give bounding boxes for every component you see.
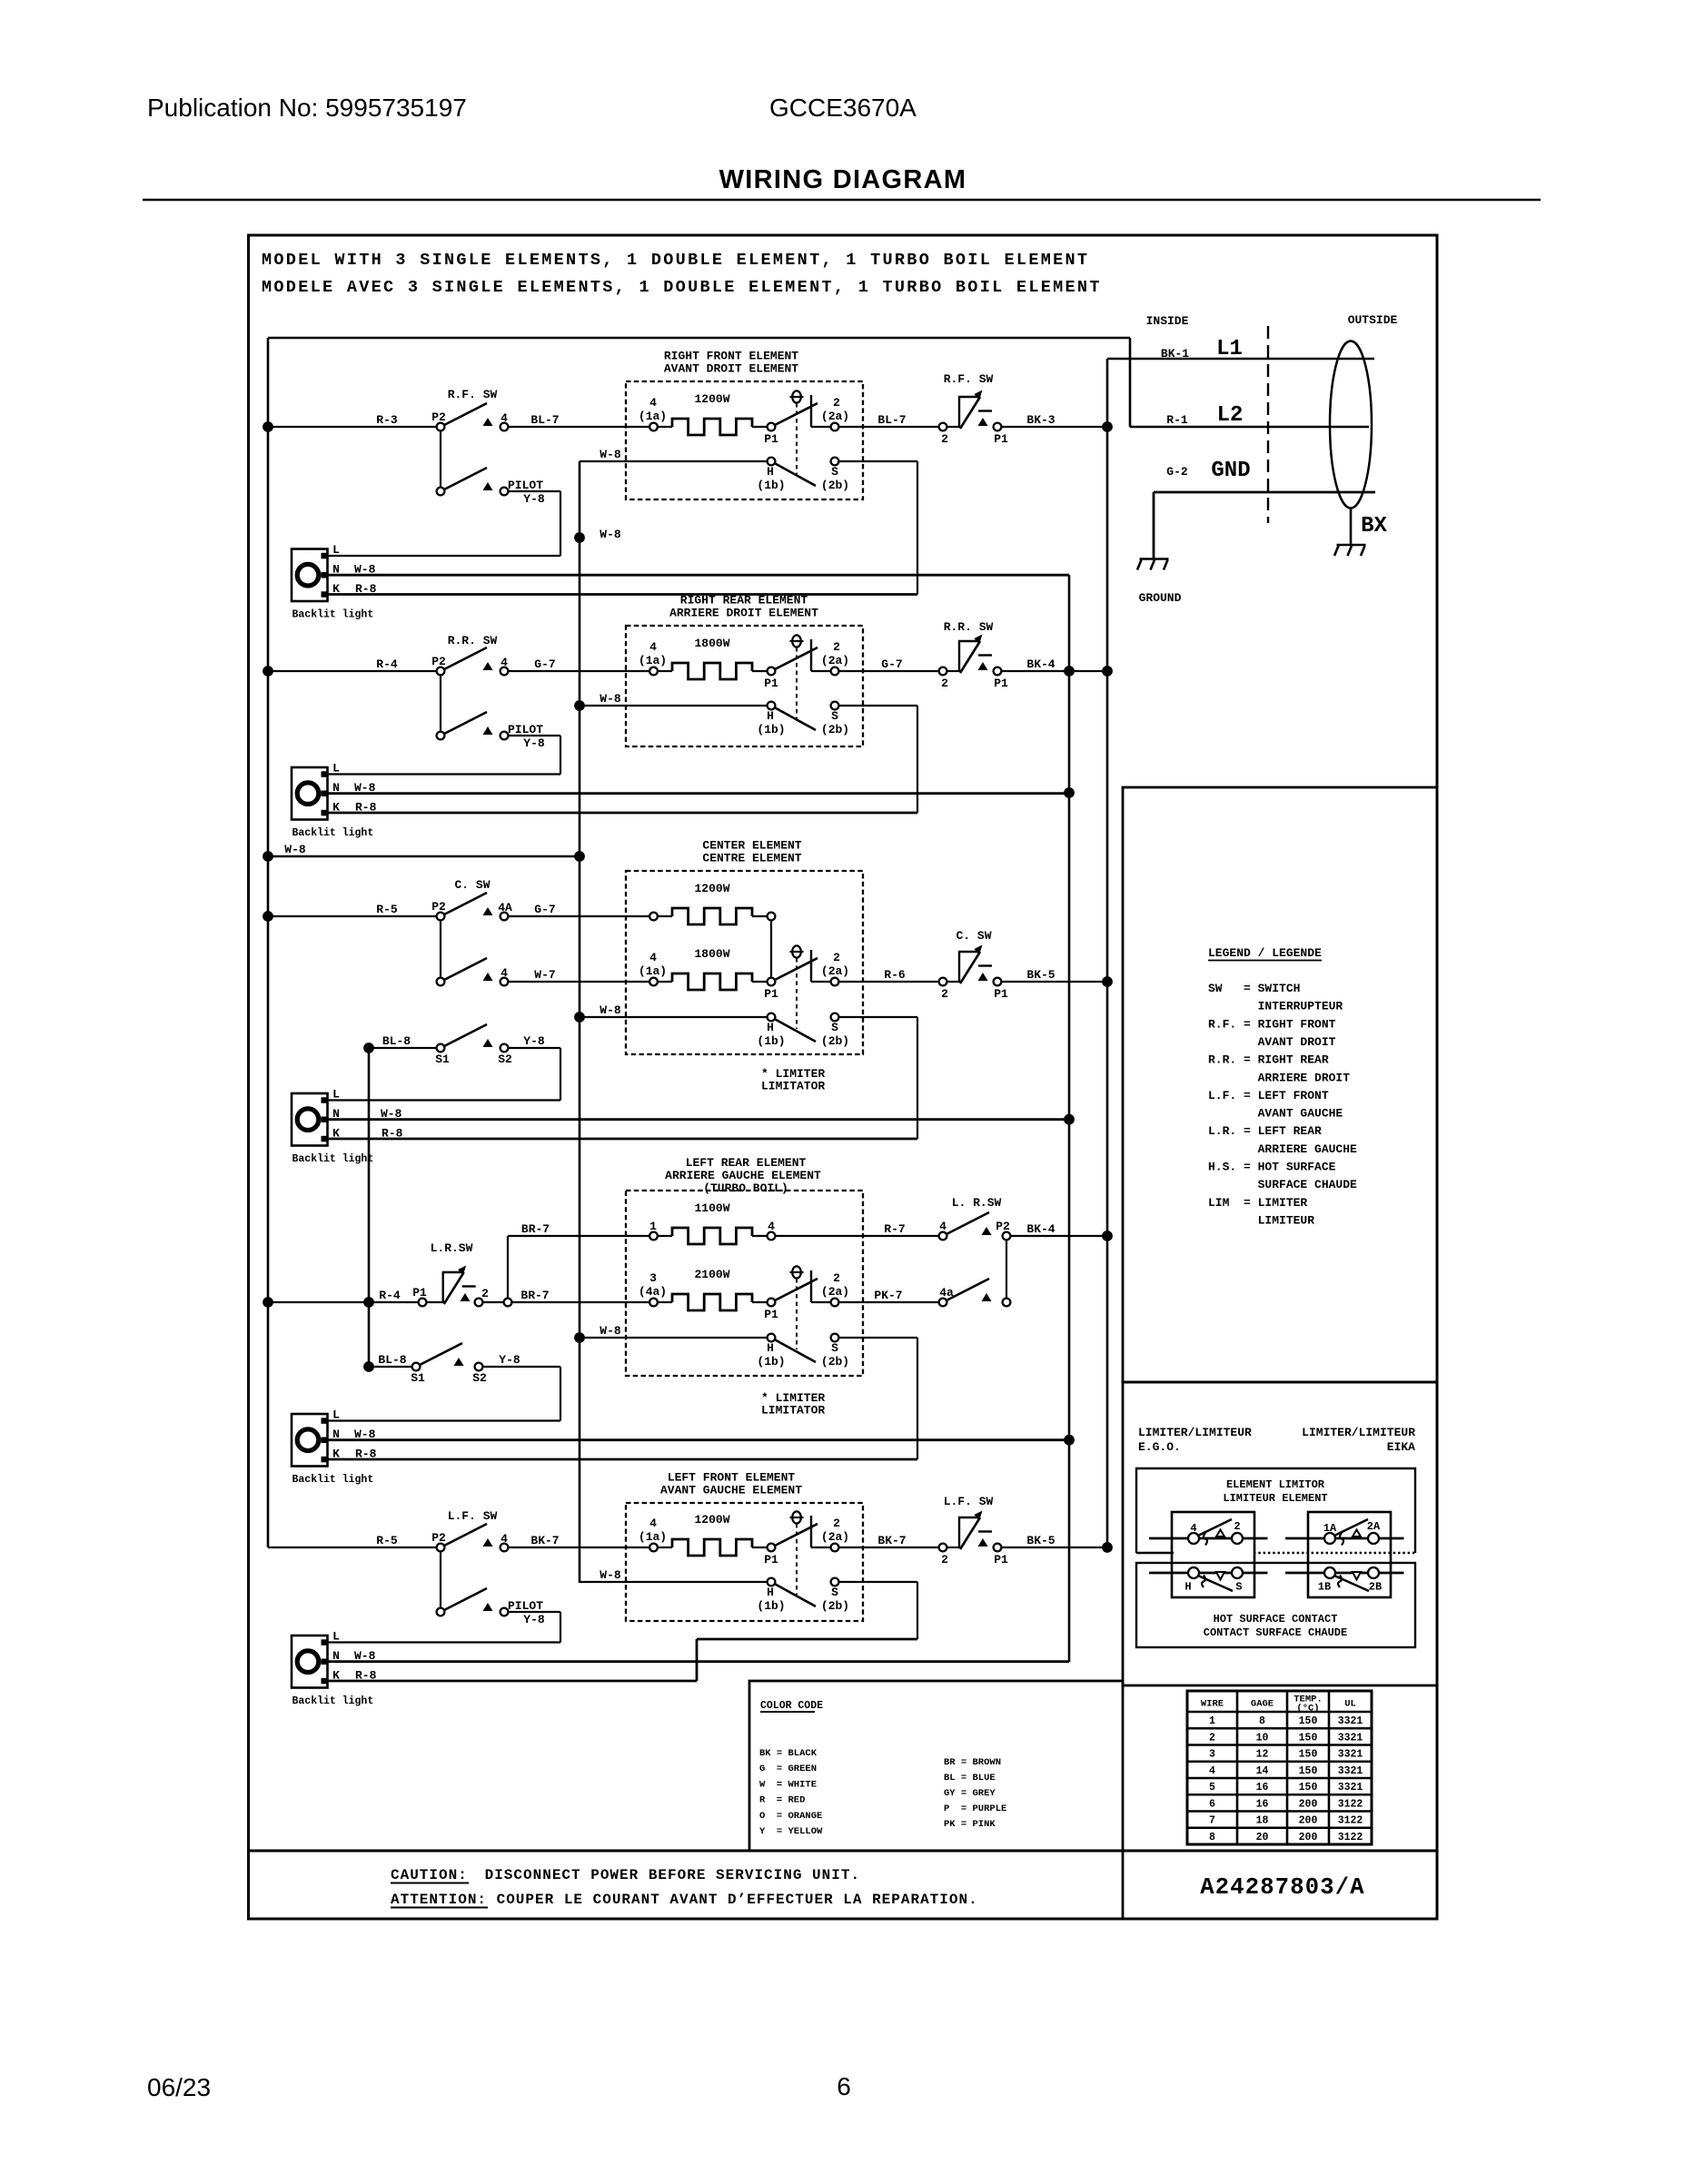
label L.F. SW (448, 1509, 498, 1523)
svg-text:4: 4 (1190, 1522, 1196, 1535)
svg-text:LIMITER/LIMITEUR: LIMITER/LIMITEUR (1138, 1426, 1252, 1439)
label W-8 (N wire) (354, 563, 376, 577)
svg-text:Backlit light: Backlit light (292, 1695, 374, 1707)
svg-text:LIMITEUR: LIMITEUR (1208, 1213, 1314, 1227)
svg-text:4: 4 (501, 411, 508, 425)
svg-text:R.R. = RIGHT REAR: R.R. = RIGHT REAR (1208, 1053, 1329, 1067)
svg-text:S: S (831, 1586, 838, 1599)
svg-text:(2b): (2b) (821, 723, 849, 736)
svg-text:10: 10 (1256, 1732, 1269, 1744)
label P1 (C element) (764, 987, 778, 1001)
label S (L.R.) (831, 1341, 838, 1355)
limiter box (1123, 1382, 1437, 1685)
svg-text:1B: 1B (1318, 1581, 1331, 1594)
connector triangle before P1 (978, 418, 988, 426)
svg-text:AVANT DROIT: AVANT DROIT (1208, 1035, 1336, 1049)
svg-text:H: H (767, 709, 774, 723)
svg-text:(2a): (2a) (821, 1530, 849, 1544)
wire L to backlit (L.R.) (328, 1419, 561, 1421)
caution strip divider (249, 1850, 1438, 1853)
svg-text:3122: 3122 (1338, 1832, 1363, 1843)
label (1a) (639, 654, 667, 667)
terminal P2 (L. R.SW) (1003, 1232, 1011, 1240)
wire N W-8 (C) (328, 1118, 1070, 1121)
element title LEFT REAR ELEMENT (686, 1156, 807, 1170)
junction L.R. BK-4 / BK bus (1102, 1230, 1113, 1241)
color code right BL (944, 1773, 996, 1784)
wire P2 to lower pole (C) (440, 921, 441, 983)
limiter switch detail EIKA (1285, 1512, 1404, 1597)
label (2b) (821, 723, 849, 736)
label 4 above (1a) (649, 1517, 657, 1530)
junction left bus / W-8 link (263, 851, 273, 862)
svg-text:PILOT: PILOT (508, 1599, 543, 1613)
wire K R-8 (C) (328, 1138, 918, 1141)
connector triangle pilot (483, 1603, 493, 1611)
switch C. SW pole 2 (437, 958, 487, 985)
svg-text:LIM = LIMITER: LIM = LIMITER (1208, 1196, 1307, 1210)
wire P2 link riser (1006, 1240, 1007, 1299)
label G-2 (1166, 465, 1188, 479)
terminal (1a) C (649, 978, 658, 986)
label Y-8 (523, 736, 545, 750)
connector triangle S2 (L.R.) (454, 1358, 464, 1366)
label S (C) (831, 1021, 838, 1034)
svg-text:3321: 3321 (1338, 1715, 1363, 1727)
label Y-8 (523, 492, 545, 506)
wire P2 to pilot pole (440, 431, 441, 492)
junction BK-4 / BK bus (1102, 666, 1113, 677)
connector triangle L.F. main (483, 1538, 493, 1547)
svg-text:S: S (831, 1341, 838, 1355)
svg-text:(2b): (2b) (821, 1355, 849, 1369)
heating element resistor 1800W (672, 663, 752, 679)
element box R.R. (dashed) (626, 626, 863, 746)
svg-text:BL-7: BL-7 (877, 413, 906, 427)
svg-text:4: 4 (501, 966, 508, 980)
label 4 (L.R. top) (768, 1220, 775, 1233)
wire table grid (1187, 1691, 1372, 1844)
label W-8 (L.R. N wire) (354, 1428, 376, 1441)
label H (767, 709, 774, 723)
label R-8 (L.R. K wire) (355, 1448, 377, 1461)
wire pilot to L drop (509, 735, 561, 736)
svg-text:3: 3 (649, 1271, 657, 1285)
note * LIMITER (C) (761, 1067, 825, 1081)
caption Backlit light (C) (292, 1153, 374, 1165)
svg-text:G-7: G-7 (881, 657, 902, 671)
label LIMITEUR ELEMENT (1223, 1492, 1327, 1505)
label H (767, 1586, 774, 1599)
label CONTACT SURFACE CHAUDE (1204, 1626, 1347, 1639)
svg-text:MODELE AVEC 3 SINGLE ELEMENTS,: MODELE AVEC 3 SINGLE ELEMENTS, 1 DOUBLE … (262, 278, 1102, 297)
junction BL-8 corner (C) (363, 1043, 374, 1053)
wire resistor to P1 (752, 426, 768, 428)
svg-text:S2: S2 (498, 1052, 512, 1066)
svg-text:(1b): (1b) (757, 723, 785, 736)
element title CENTER ELEMENT (702, 839, 801, 853)
svg-text:(2a): (2a) (821, 1285, 849, 1299)
svg-text:G = GREEN: G = GREEN (759, 1764, 817, 1774)
svg-text:150: 150 (1299, 1715, 1318, 1727)
svg-text:LIMITEUR ELEMENT: LIMITEUR ELEMENT (1223, 1492, 1327, 1505)
wire W-8 into H (580, 1581, 768, 1583)
label C. SW (right) (956, 929, 991, 943)
svg-text:14: 14 (1256, 1765, 1269, 1777)
title underline rule (143, 199, 1541, 202)
label PILOT (508, 1599, 543, 1613)
label LIMITER/LIMITEUR EIKA (1302, 1426, 1415, 1454)
label L2 (1217, 403, 1244, 428)
wire L drop (560, 491, 561, 556)
label GROUND (1139, 591, 1182, 605)
label BK-7 (877, 1534, 906, 1547)
svg-text:H: H (767, 1341, 774, 1355)
label G-7 (534, 657, 555, 671)
svg-text:W-8: W-8 (284, 843, 306, 856)
label P1 (element) (764, 1553, 778, 1566)
label L (L.R.) (332, 1408, 340, 1422)
label BK-5 (C) (1026, 968, 1055, 982)
terminal PILOT R.R. (501, 732, 509, 740)
color code left G (759, 1764, 817, 1774)
svg-text:ARRIERE DROIT: ARRIERE DROIT (1208, 1071, 1350, 1084)
label 2 above (2a) (833, 396, 840, 410)
wire resistor to P1 (752, 1547, 768, 1548)
label S2 (L.R.) (472, 1371, 487, 1385)
label S1 (C) (435, 1052, 450, 1066)
label (1b) (757, 479, 785, 492)
junction BK-5 / BK bus (1102, 1542, 1113, 1553)
label P2 (L. R.SW) (996, 1220, 1010, 1233)
label P1 below (994, 1553, 1008, 1566)
wire BL-8 to S1 (L.R.) (369, 1366, 416, 1368)
label (4a) (639, 1285, 667, 1299)
legend entry 3 (1208, 1017, 1336, 1031)
label 4 (terminal) (501, 1532, 508, 1546)
wire K jog up (696, 1639, 699, 1681)
wire (1a) to resistor (658, 426, 672, 428)
label N (332, 563, 340, 577)
backlit light R.R. (292, 767, 328, 820)
wire (2a) to R.F. control switch (839, 426, 939, 428)
label (2a) (821, 410, 849, 423)
wire W-8 into H (580, 705, 768, 707)
label 1800W (694, 637, 729, 650)
switch S1 (L.R.) (412, 1343, 462, 1370)
svg-text:COUPER LE COURANT AVANT D’EFFE: COUPER LE COURANT AVANT D’EFFECTUER LA R… (487, 1892, 978, 1908)
wire K jog across (697, 1638, 917, 1641)
heating element resistor 2100W (672, 1294, 752, 1310)
outer diagram border box (249, 235, 1438, 1919)
svg-text:INTERRUPTEUR: INTERRUPTEUR (1208, 1000, 1343, 1013)
caution text line 2 (391, 1892, 978, 1908)
svg-text:C. SW: C. SW (956, 929, 991, 943)
wire BK-4 to BK bus (L.R.) (1011, 1235, 1108, 1237)
element title (TURBO BOIL) (703, 1181, 788, 1195)
note * LIMITER (L.R.) (761, 1391, 825, 1405)
svg-text:L: L (332, 1088, 340, 1102)
color code right BR (944, 1757, 1001, 1768)
wire S return drop (C) (917, 1017, 918, 1139)
svg-text:BK-7: BK-7 (530, 1534, 559, 1547)
caption Backlit light (292, 609, 374, 621)
thermostat bulb symbol (790, 390, 804, 402)
label R.R. SW (448, 634, 498, 647)
color code left R (759, 1795, 805, 1806)
svg-text:H: H (767, 465, 774, 479)
label (1b) (757, 723, 785, 736)
svg-text:3321: 3321 (1338, 1765, 1363, 1777)
wire N W-8 R.F. (328, 574, 1070, 577)
wire top feed from left bus to L2 entry (268, 337, 1130, 340)
coupling dashed link (796, 1524, 798, 1595)
switch L.R.SW symbol (442, 1266, 476, 1305)
label 2 above (2a) (833, 1517, 840, 1530)
svg-text:BL-7: BL-7 (530, 413, 559, 427)
svg-text:(1a): (1a) (639, 410, 667, 423)
svg-text:G-7: G-7 (534, 657, 555, 671)
terminal 2 (L.F. SW) (939, 1544, 947, 1552)
line bus BK (vertical x=1219) (1106, 359, 1109, 1547)
svg-text:Backlit light: Backlit light (292, 1474, 374, 1486)
caption Backlit light (292, 1695, 374, 1707)
terminal P1 (C. SW) (994, 978, 1002, 986)
label P1 (element) (764, 432, 778, 446)
svg-text:EIKA: EIKA (1387, 1440, 1415, 1454)
label (1a) (639, 1530, 667, 1544)
label K (332, 801, 340, 815)
svg-text:6: 6 (837, 2072, 851, 2100)
label L (C) (332, 1088, 340, 1102)
svg-text:Y-8: Y-8 (523, 1034, 545, 1048)
svg-text:S: S (831, 465, 838, 479)
label R-4 (376, 657, 398, 671)
svg-text:(1b): (1b) (757, 1599, 785, 1613)
svg-text:PK = PINK: PK = PINK (944, 1819, 996, 1830)
svg-text:RIGHT FRONT ELEMENT: RIGHT FRONT ELEMENT (664, 350, 798, 363)
terminal 2 (L.R.) (475, 1299, 483, 1307)
svg-text:200: 200 (1299, 1798, 1318, 1810)
svg-text:3321: 3321 (1338, 1732, 1363, 1744)
terminal C top row left (649, 913, 658, 921)
label 3 above (4a) (649, 1271, 657, 1285)
label R-5 (376, 1534, 398, 1547)
junction BL-8 corner (L.R.) (363, 1361, 374, 1372)
svg-text:2: 2 (833, 1271, 840, 1285)
color code right P (944, 1804, 1006, 1814)
terminal 4 R.R. (501, 667, 509, 676)
wire K R-8 L.F. (328, 1680, 698, 1683)
neutral bus W-8 (vertical x=638) (579, 461, 581, 1583)
label (1b) (757, 1599, 785, 1613)
wire BK-5 to BK bus (1002, 981, 1108, 983)
svg-text:Y = YELLOW: Y = YELLOW (759, 1826, 823, 1837)
svg-text:BR = BROWN: BR = BROWN (944, 1757, 1001, 1768)
svg-text:2: 2 (481, 1287, 489, 1300)
svg-text:4: 4 (649, 1517, 657, 1530)
connector triangle C second (483, 973, 493, 981)
wire riser to (2a) C (811, 981, 831, 983)
svg-text:1800W: 1800W (694, 947, 729, 961)
svg-text:1200W: 1200W (694, 882, 729, 895)
label (2a) (821, 1530, 849, 1544)
svg-text:LIMITATOR: LIMITATOR (761, 1080, 825, 1093)
label INSIDE (1146, 314, 1189, 328)
svg-text:S: S (1235, 1581, 1242, 1594)
svg-text:3321: 3321 (1338, 1749, 1363, 1761)
label (1b) C (757, 1034, 785, 1048)
terminal H L.R. (768, 1334, 776, 1342)
terminal 4 (C) (501, 978, 509, 986)
wire 2 to BR-7 node (483, 1301, 504, 1303)
label (1a) C (639, 964, 667, 978)
terminal P1 (L.R. SW) (419, 1299, 427, 1307)
label BK-4 (L.R.) (1026, 1222, 1055, 1236)
connector triangle before P1 (978, 662, 988, 670)
coupling dashed link (796, 647, 798, 718)
label (2a) L.R. (821, 1285, 849, 1299)
legend entry 5 (1208, 1053, 1329, 1067)
svg-text:Backlit light: Backlit light (292, 827, 374, 839)
svg-text:INSIDE: INSIDE (1146, 314, 1189, 328)
label P1 (L.R. element) (764, 1308, 778, 1321)
label W-8 (R.R. element) (600, 692, 621, 706)
terminal H R.R. (768, 702, 776, 710)
svg-text:2: 2 (833, 396, 840, 410)
svg-text:MODEL WITH 3 SINGLE ELEMENTS,: MODEL WITH 3 SINGLE ELEMENTS, 1 DOUBLE E… (262, 251, 1089, 270)
switch pilot pole R.R. (437, 712, 487, 739)
svg-text:2: 2 (1209, 1732, 1215, 1744)
element title line 2 (660, 1484, 802, 1497)
switch arm P1-(2a) (775, 1524, 818, 1546)
terminal 4 R.F. (501, 423, 509, 431)
label Y-8 (C) (523, 1034, 545, 1048)
svg-text:P1: P1 (412, 1286, 427, 1300)
label R-6 (884, 968, 906, 982)
wire K R-8 R.F. (328, 593, 918, 596)
contact riser (2a) C (810, 950, 812, 982)
label 1 (L.R. top) (649, 1220, 657, 1233)
terminal 1 (L.R. top) (649, 1232, 658, 1240)
svg-text:P1: P1 (994, 432, 1008, 446)
label 1200W (694, 392, 729, 406)
element title ARRIERE GAUCHE ELEMENT (665, 1169, 821, 1182)
connector triangle S2 (C) (483, 1039, 493, 1047)
svg-text:OUTSIDE: OUTSIDE (1348, 313, 1398, 327)
svg-text:L.F. SW: L.F. SW (944, 1495, 994, 1508)
svg-text:4: 4 (939, 1220, 947, 1233)
legend box (1123, 787, 1437, 1382)
switch arm H-(2b) (776, 708, 817, 731)
svg-text:BL = BLUE: BL = BLUE (944, 1773, 996, 1784)
svg-text:L: L (332, 543, 340, 557)
footer date 06/23 (147, 2073, 211, 2101)
wire (1a) to resistor (C) (658, 981, 672, 983)
svg-text:LEGEND / LEGENDE: LEGEND / LEGENDE (1208, 946, 1322, 960)
svg-text:4A: 4A (498, 901, 512, 914)
junction W-8 bus / W-8 link (574, 851, 585, 862)
switch pilot pole R.F. (437, 468, 487, 495)
svg-text:1200W: 1200W (694, 392, 729, 406)
connector triangle pilot (483, 726, 493, 735)
element title line 1 (664, 350, 798, 363)
wire resistor to P1 (752, 670, 768, 672)
svg-text:6: 6 (1209, 1798, 1215, 1810)
label S (831, 1586, 838, 1599)
wire pilot to L drop (509, 490, 561, 492)
switch R.R. SW pole P2 (437, 647, 487, 675)
label R-8 (K wire) (355, 582, 377, 596)
junction left bus / R-4 (263, 666, 273, 677)
terminal second pole (L. R.SW) (1003, 1299, 1011, 1307)
contact riser (2a) (810, 639, 812, 671)
wire L drop (C) (560, 1048, 561, 1101)
label N (L.R.) (332, 1428, 340, 1441)
svg-text:CONTACT SURFACE CHAUDE: CONTACT SURFACE CHAUDE (1204, 1626, 1347, 1639)
switch L.F. SW symbol (958, 1511, 992, 1550)
svg-text:CENTRE ELEMENT: CENTRE ELEMENT (702, 852, 801, 865)
connector triangle R.R. main (483, 662, 493, 670)
svg-text:R.F. SW: R.F. SW (944, 372, 994, 386)
label 4 (L. R.SW) (939, 1220, 947, 1233)
connector triangle L.R. main (461, 1293, 471, 1301)
label W-8 (C N wire) (381, 1107, 402, 1121)
terminal (2a) R.R. (831, 667, 839, 676)
switch arm P1-(2a) L.R. (775, 1279, 818, 1300)
svg-text:1: 1 (649, 1220, 657, 1233)
wire riser to (2a) (811, 426, 831, 428)
label BK-1 (1161, 347, 1189, 361)
svg-text:Y-8: Y-8 (499, 1353, 520, 1367)
svg-text:(2a): (2a) (821, 410, 849, 423)
svg-text:L.R.SW: L.R.SW (431, 1241, 473, 1255)
switch arm H-(2b) (776, 1585, 817, 1607)
svg-text:BK-7: BK-7 (877, 1534, 906, 1547)
switch C. SW symbol (958, 945, 992, 984)
element title line 1 (668, 1471, 796, 1485)
junction W-8 bus / C W-8 wire (574, 1012, 585, 1023)
connector triangle C top (483, 907, 493, 915)
backlit light R.F. (292, 549, 328, 602)
ground symbol (BX outside) (1334, 545, 1366, 556)
terminal (2a) R.F. (831, 423, 839, 431)
wire BK-5 to BK bus (1002, 1547, 1108, 1548)
wire resistor to right terminal (C top) (752, 915, 768, 917)
svg-text:1800W: 1800W (694, 637, 729, 650)
svg-text:(1b): (1b) (757, 1355, 785, 1369)
wire G-7 to element top row (509, 915, 650, 917)
wire (1a) to resistor (658, 670, 672, 672)
label G-7 (C) (534, 903, 555, 916)
thermostat bulb symbol L.R. (790, 1266, 804, 1278)
svg-text:S2: S2 (472, 1371, 487, 1385)
connector triangle before P1 (C. SW) (978, 973, 988, 981)
terminal P1 L.R. element (768, 1299, 776, 1307)
label P2 (C switch) (431, 900, 446, 914)
svg-text:20: 20 (1256, 1832, 1269, 1843)
switch arm P1-(2a) C (775, 958, 818, 980)
terminal S L.F. (831, 1578, 839, 1586)
label K (C) (332, 1127, 340, 1141)
svg-text:O = ORANGE: O = ORANGE (759, 1811, 822, 1822)
caption Backlit light (L.R.) (292, 1474, 374, 1486)
svg-text:AVANT GAUCHE: AVANT GAUCHE (1208, 1107, 1343, 1121)
drawing number A24287803/A (1200, 1874, 1365, 1901)
label R-7 (884, 1222, 905, 1236)
terminal 2 (R.F. SW) (939, 423, 947, 431)
wire table outer (1187, 1691, 1372, 1844)
